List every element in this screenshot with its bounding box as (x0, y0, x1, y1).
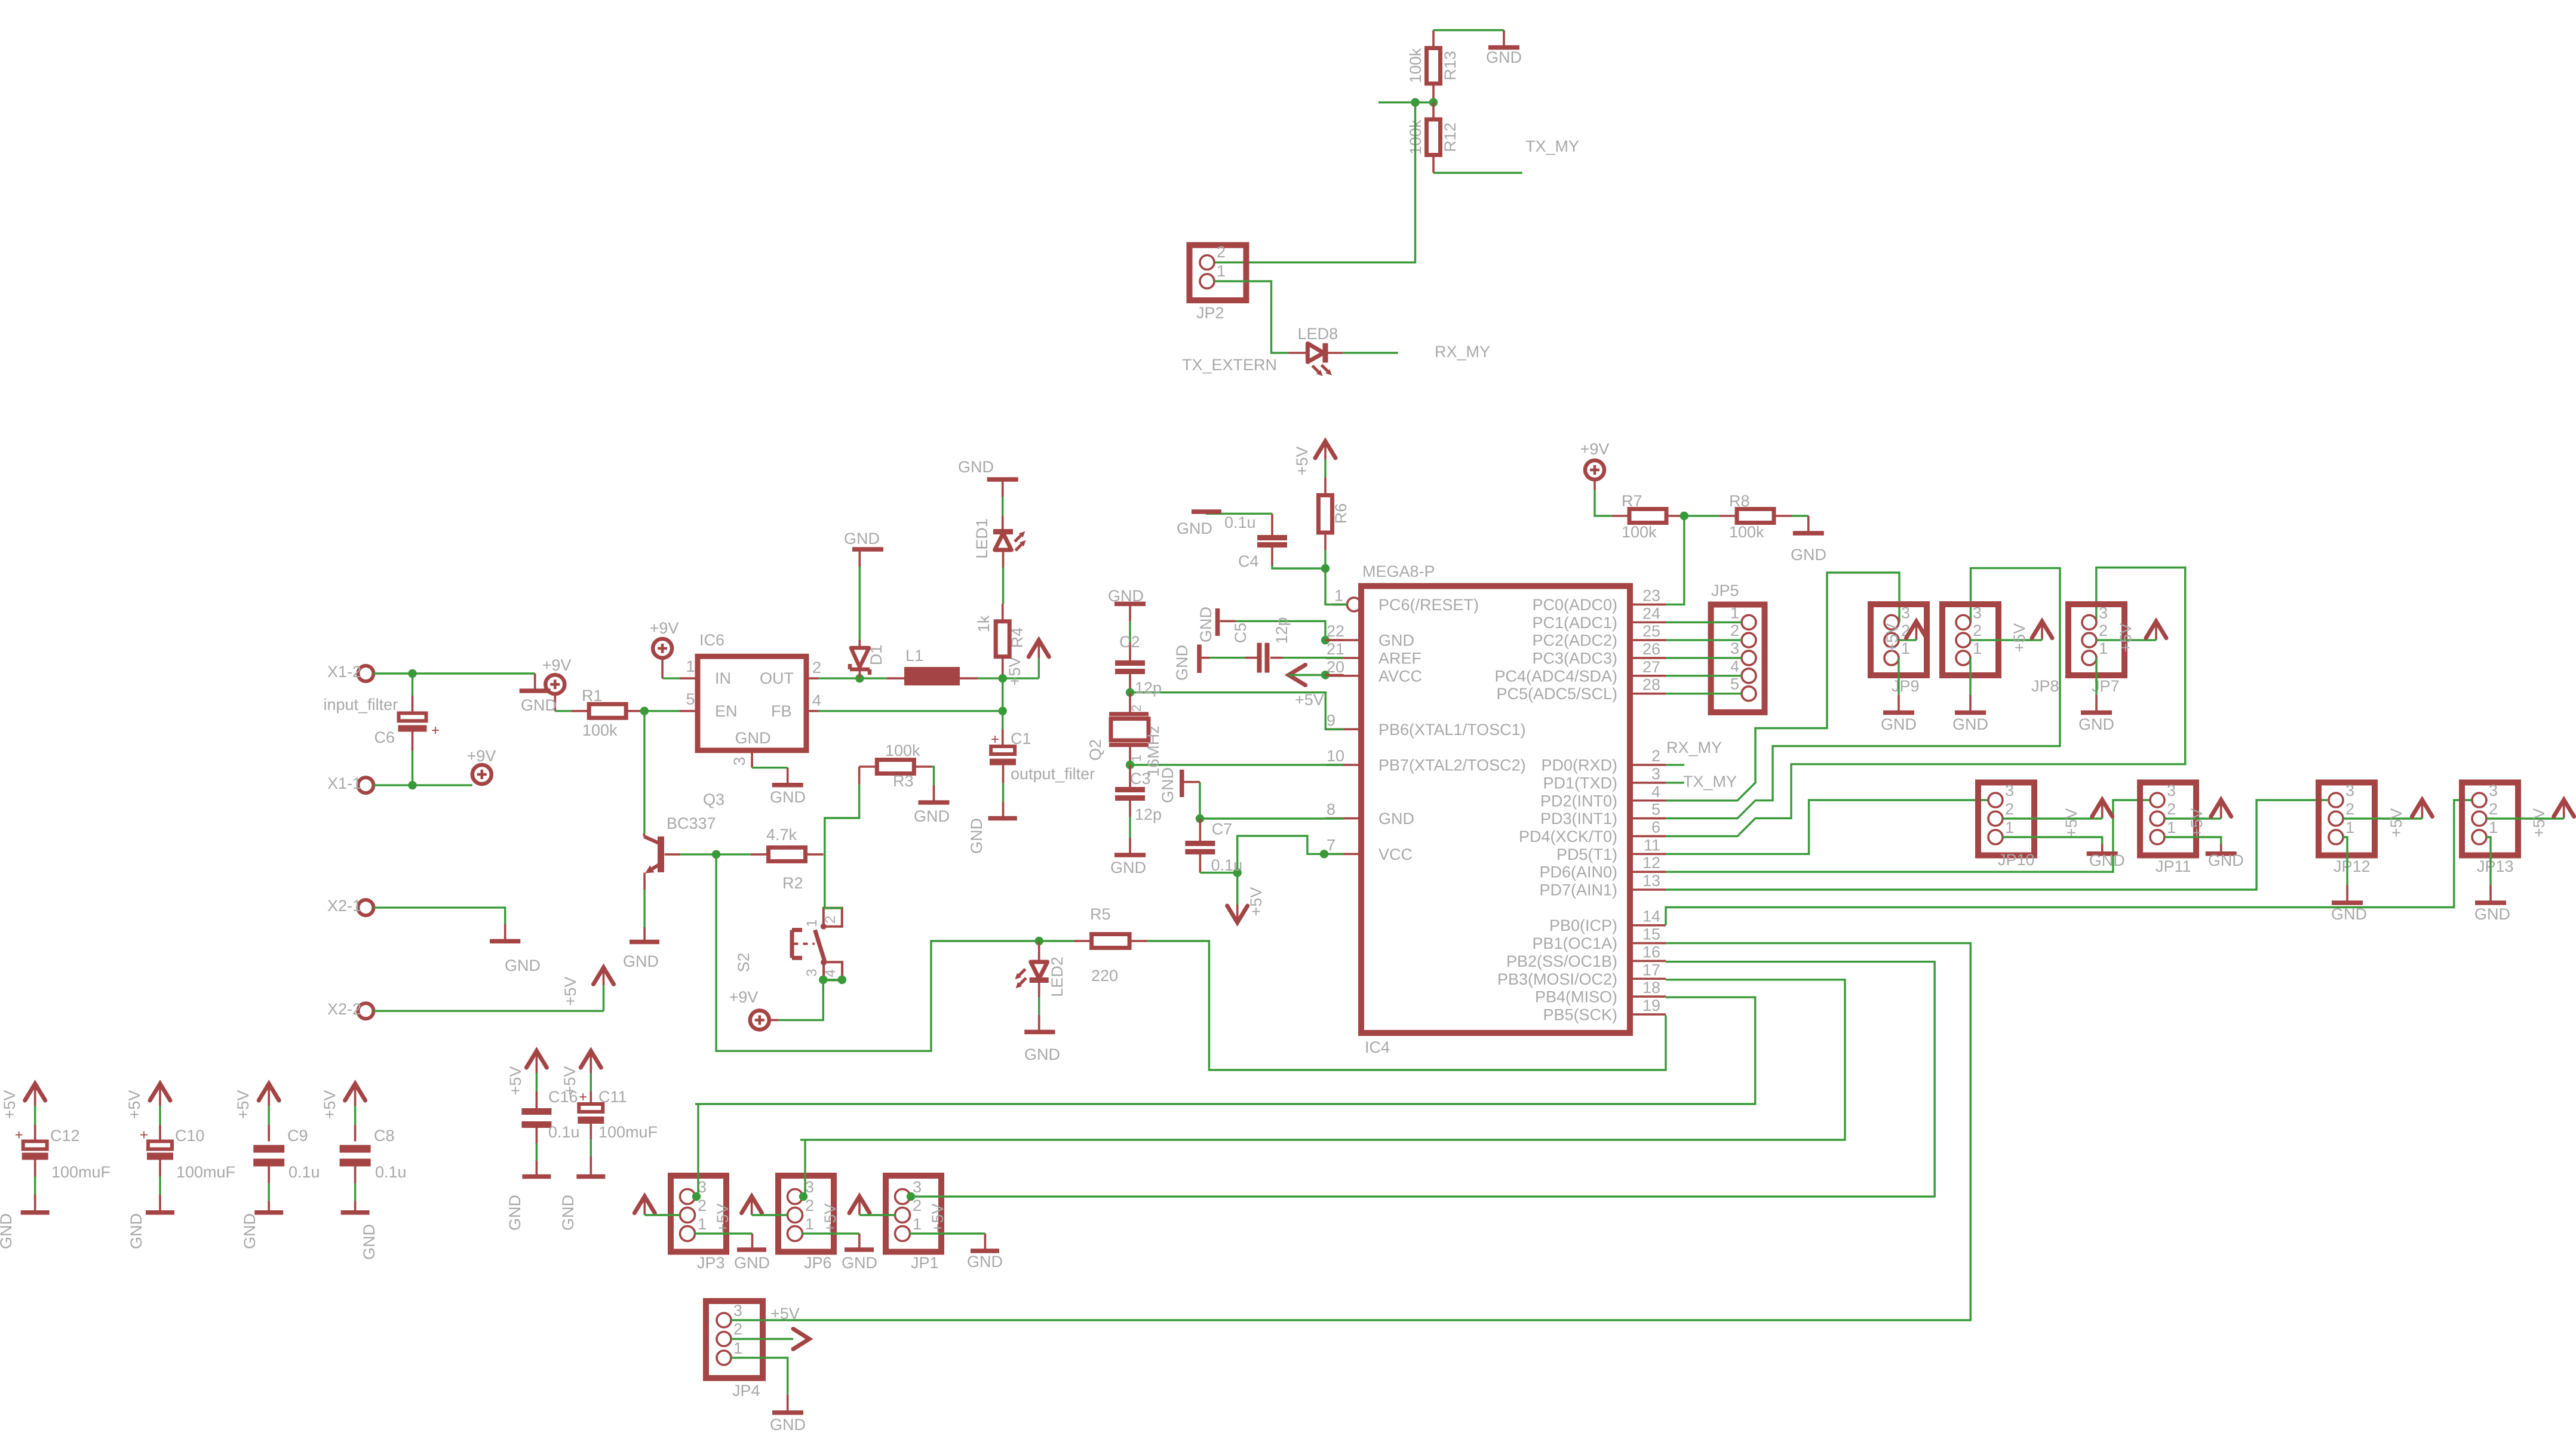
svg-text:3: 3 (733, 1302, 742, 1320)
svg-text:2: 2 (1129, 705, 1144, 712)
svg-text:PB4(MISO): PB4(MISO) (1535, 988, 1617, 1006)
wire JP1 pin2 (859, 1214, 895, 1216)
svg-text:100k: 100k (1622, 523, 1657, 541)
svg-text:+: + (991, 731, 999, 748)
svg-text:PC1(ADC1): PC1(ADC1) (1532, 614, 1617, 632)
svg-text:X2-2: X2-2 (327, 1000, 361, 1018)
ic pin 22 GND (1326, 622, 1415, 650)
wire gnd to pin 22 (1236, 621, 1325, 640)
wire FB to R3 node (818, 710, 1003, 712)
supply +5V at JP13 (2530, 800, 2574, 838)
svg-text:8: 8 (1327, 801, 1335, 819)
svg-text:GND: GND (914, 807, 950, 825)
svg-text:+: + (15, 1127, 23, 1143)
supply +5V at JP8 (2010, 622, 2052, 653)
ground GND at JP4 (770, 1395, 806, 1433)
ic pin 1 PC6/RESET (1332, 586, 1479, 614)
svg-text:1: 1 (1973, 639, 1982, 657)
wire JP4 pin1 (731, 1358, 788, 1395)
ground GND at JP1 (967, 1234, 1003, 1271)
svg-text:GND: GND (1110, 859, 1146, 877)
svg-text:1: 1 (1730, 604, 1739, 622)
svg-text:3: 3 (913, 1178, 922, 1196)
svg-text:+9V: +9V (467, 747, 496, 765)
wire gnd to pin 8 (1200, 817, 1344, 819)
svg-text:2: 2 (2167, 800, 2176, 818)
svg-text:2: 2 (1973, 622, 1982, 639)
svg-text:LED2: LED2 (1048, 957, 1066, 997)
svg-text:22: 22 (1327, 622, 1344, 640)
junction S2 pad4 (838, 976, 846, 984)
svg-text:12p: 12p (1135, 679, 1162, 697)
svg-text:GND: GND (1108, 587, 1144, 605)
svg-text:MEGA8-P: MEGA8-P (1362, 562, 1435, 580)
ground GND at JP6 (842, 1234, 877, 1272)
ground GND right of R3 (914, 785, 950, 825)
wire Q3 base net (680, 853, 751, 855)
svg-text:LED8: LED8 (1298, 325, 1338, 343)
ground GND below LED2 (1024, 1015, 1060, 1063)
svg-text:GND: GND (0, 1213, 15, 1249)
svg-text:AVCC: AVCC (1378, 667, 1422, 685)
svg-text:GND: GND (958, 458, 994, 476)
svg-text:GND: GND (360, 1224, 378, 1260)
svg-text:JP12: JP12 (2334, 857, 2371, 875)
svg-text:2: 2 (733, 1320, 742, 1338)
ground GND above LED1 (958, 458, 1018, 497)
wire +9V to R1 (555, 710, 571, 712)
svg-text:FB: FB (771, 702, 792, 720)
ground GND near X1-2 (520, 674, 557, 714)
svg-text:100muF: 100muF (51, 1163, 110, 1181)
label IC4 (1365, 1038, 1390, 1056)
inductor L1 (886, 647, 978, 685)
svg-text:4: 4 (812, 691, 821, 709)
supply +5V at X2-2 (561, 967, 614, 1011)
svg-text:2: 2 (1730, 622, 1739, 639)
wire C3 to gnd (1129, 817, 1131, 838)
svg-text:1: 1 (698, 1215, 707, 1233)
wire LED1 to R4 (1002, 568, 1004, 604)
wire C7 to +5V junction (1200, 872, 1237, 874)
wire JP3 pin3 to pin 18 (695, 997, 1755, 1104)
svg-text:0.1u: 0.1u (1211, 856, 1243, 874)
ic IC6 pin names (715, 669, 794, 747)
wire S2 bottom link (823, 979, 842, 981)
svg-text:output_filter: output_filter (1011, 765, 1095, 783)
svg-text:+5V: +5V (1, 1090, 19, 1120)
junction LED2 node (1035, 937, 1043, 945)
ground GND below C1 (968, 818, 1017, 854)
svg-text:JP6: JP6 (804, 1254, 832, 1272)
ic pin 16 PB2(SS/OC1B) (1506, 943, 1666, 970)
resistor R7 (1611, 492, 1684, 541)
ic pin 9 PB6(XTAL1/TOSC1) (1326, 711, 1526, 739)
resistor R4 (975, 604, 1026, 678)
svg-text:23: 23 (1642, 586, 1660, 604)
capacitor C7 (1185, 819, 1242, 874)
svg-text:R13: R13 (1441, 51, 1459, 81)
svg-text:PB6(XTAL1/TOSC1): PB6(XTAL1/TOSC1) (1378, 721, 1526, 739)
svg-text:13: 13 (1642, 872, 1660, 890)
svg-text:PC2(ADC2): PC2(ADC2) (1532, 632, 1617, 650)
ic pin 14 PB0(ICP) (1549, 908, 1666, 935)
label +5V at JP4 (770, 1305, 800, 1323)
svg-text:25: 25 (1642, 622, 1660, 640)
wire junction to pin 1 (1325, 568, 1347, 604)
svg-text:9: 9 (1327, 711, 1335, 729)
svg-text:1: 1 (1217, 262, 1226, 280)
capacitor C5 (1209, 617, 1291, 672)
svg-text:R6: R6 (1332, 503, 1350, 524)
wire R1 to EN (644, 710, 680, 712)
wire RX_MY stub (1666, 764, 1684, 765)
wire EN node to Q3 collector (643, 711, 645, 834)
svg-text:GND: GND (1197, 607, 1215, 642)
svg-text:PD4(XCK/T0): PD4(XCK/T0) (1519, 828, 1617, 845)
wire C1 to gnd (1002, 783, 1004, 802)
wire JP11 pin1 (2164, 837, 2221, 844)
junction output node (999, 674, 1007, 682)
wire pin 5 to JP8 pin3 (1666, 568, 2060, 818)
supply +5V at AVCC (1289, 665, 1324, 709)
svg-text:TX_EXTERN: TX_EXTERN (1182, 356, 1277, 374)
svg-text:100muF: 100muF (598, 1123, 658, 1141)
supply +9V at R1 (542, 656, 572, 711)
svg-text:JP9: JP9 (1892, 677, 1920, 695)
wire Q3 emitter (643, 890, 645, 927)
ic pin 17 PB3(MOSI/OC2) (1497, 961, 1666, 988)
svg-text:3: 3 (2489, 782, 2498, 799)
svg-text:JP8: JP8 (2031, 677, 2059, 695)
ground GND at JP3 (734, 1234, 770, 1272)
wire X1-2 net (373, 672, 535, 674)
svg-text:+5V: +5V (2062, 808, 2080, 838)
wire MCU to JP5 pin 1 (1666, 622, 1742, 623)
supply +5V down arrow (1227, 873, 1265, 922)
wire gnd drop to pin8 node (1199, 782, 1201, 819)
wire R8 to ground (1792, 515, 1809, 516)
capacitor C3 (1115, 765, 1162, 823)
junction pin8-C7 (1196, 814, 1204, 823)
svg-text:GND: GND (1173, 645, 1191, 681)
svg-text:PB5(SCK): PB5(SCK) (1543, 1005, 1617, 1023)
junction XTAL2 (1126, 761, 1134, 769)
ic pin 21 AREF (1326, 640, 1422, 668)
svg-text:+: + (140, 1127, 148, 1143)
svg-text:28: 28 (1642, 676, 1660, 694)
svg-text:6: 6 (1651, 818, 1660, 836)
ic pin 13 PD7(AIN1) (1539, 872, 1666, 899)
svg-text:3: 3 (2005, 782, 2014, 799)
svg-text:C10: C10 (175, 1127, 205, 1145)
svg-text:2: 2 (2099, 622, 2108, 639)
wire pin20 red tail (1325, 674, 1344, 676)
svg-text:21: 21 (1327, 640, 1344, 658)
svg-text:14: 14 (1642, 908, 1660, 925)
svg-text:JP1: JP1 (911, 1254, 939, 1272)
junction FB-C1 (999, 707, 1007, 715)
svg-text:3: 3 (730, 757, 748, 765)
wire net RX_MY from LED8 (1343, 352, 1398, 353)
supply +5V at JP1 (849, 1197, 947, 1233)
wire LED1 gnd tail (1002, 497, 1003, 516)
svg-text:GND: GND (1177, 519, 1212, 537)
svg-text:+9V: +9V (542, 656, 572, 674)
ground GND at JP9 (1881, 695, 1917, 733)
svg-text:X2-1: X2-1 (327, 897, 361, 915)
svg-text:100muF: 100muF (176, 1163, 235, 1181)
ic IC6 pin 1 (680, 657, 698, 678)
wire node to FB node (1002, 678, 1003, 711)
svg-text:S2: S2 (735, 952, 753, 972)
svg-text:C7: C7 (1212, 820, 1233, 838)
ic pin 7 VCC (1326, 836, 1413, 863)
svg-text:PB0(ICP): PB0(ICP) (1549, 917, 1617, 934)
svg-text:GND: GND (2078, 715, 2114, 733)
svg-text:1: 1 (686, 657, 695, 675)
svg-text:GND: GND (1024, 1045, 1060, 1063)
wire X2-1 net (373, 908, 505, 924)
svg-text:GND: GND (521, 696, 557, 714)
svg-text:+5V: +5V (2530, 808, 2548, 838)
ic pin 5 PD3(INT1) (1540, 801, 1666, 828)
svg-text:+5V: +5V (506, 1066, 524, 1096)
svg-text:GND: GND (127, 1213, 145, 1249)
wire R2 to S2 and R3 (825, 785, 859, 908)
svg-text:3: 3 (805, 1178, 814, 1196)
ic pin 4 PD2(INT0) (1540, 783, 1666, 810)
svg-text:2: 2 (1651, 747, 1660, 765)
svg-text:GND: GND (968, 818, 985, 854)
svg-text:+5V: +5V (929, 1204, 947, 1233)
svg-text:11: 11 (1644, 836, 1660, 854)
svg-text:12p: 12p (1273, 617, 1291, 644)
ic pin 19 PB5(SCK) (1543, 997, 1666, 1024)
wire JP13 pin1 (2486, 837, 2491, 885)
wire JP10 pin1 (2003, 837, 2102, 844)
wire JP1 pin3 to pin 16 (911, 962, 1935, 1197)
svg-text:PB3(MOSI/OC2): PB3(MOSI/OC2) (1497, 970, 1617, 988)
svg-text:5: 5 (686, 690, 695, 708)
svg-text:R7: R7 (1622, 492, 1642, 510)
switch S2 (735, 908, 842, 980)
svg-text:0.1u: 0.1u (1224, 513, 1256, 531)
resistor R13 (1407, 30, 1459, 103)
svg-text:R2: R2 (782, 874, 803, 892)
wire JP4 pin3 to pin 15 (731, 943, 1970, 1320)
ground GND at JP13 (2474, 885, 2510, 923)
svg-text:GND: GND (241, 1213, 259, 1249)
junction XTAL1 (1126, 688, 1134, 697)
connector JP5 (1711, 582, 1765, 712)
label net TX_MY top (1525, 137, 1579, 155)
capacitor C10 (125, 1084, 235, 1249)
wire L1 to node (978, 677, 1003, 679)
ground GND near R8 (1791, 516, 1826, 564)
svg-text:100k: 100k (1729, 523, 1764, 541)
wire junction row (1378, 102, 1433, 103)
wire S2 to +9V (778, 980, 823, 1020)
svg-text:+5V: +5V (321, 1090, 339, 1120)
svg-text:12p: 12p (1135, 805, 1162, 823)
ic pin 26 PC3(ADC3) (1532, 640, 1666, 668)
svg-text:1: 1 (805, 1215, 814, 1233)
svg-text:PB1(OC1A): PB1(OC1A) (1532, 934, 1617, 952)
svg-text:JP13: JP13 (2477, 857, 2514, 875)
capacitor C4 (1224, 513, 1287, 570)
svg-text:R4: R4 (1008, 628, 1026, 648)
ground GND below Q3 (623, 942, 659, 971)
wire R7-R8 (1684, 515, 1719, 516)
wire JP9 pin2 (1899, 639, 1917, 641)
svg-text:1: 1 (1334, 586, 1343, 604)
supply +5V at JP9 (1883, 622, 1927, 653)
svg-text:4: 4 (1730, 657, 1739, 675)
svg-text:R12: R12 (1441, 122, 1459, 152)
pad X1-2 (327, 663, 373, 681)
svg-text:GND: GND (967, 1253, 1003, 1271)
wire JP6 pin2 (752, 1214, 788, 1216)
junction node R12 top (1429, 98, 1438, 106)
wire JP11 pin2 (2164, 817, 2221, 819)
diode D1 zener (850, 567, 885, 678)
ground GND near R13 (1486, 30, 1522, 67)
svg-text:5: 5 (1651, 801, 1660, 819)
ic pin 18 PB4(MISO) (1535, 979, 1666, 1006)
ground GND above D1 (844, 530, 883, 567)
svg-text:Q3: Q3 (703, 791, 724, 808)
wire JP7 pin1 (2095, 658, 2097, 695)
pad X1-1 (327, 774, 373, 793)
svg-text:24: 24 (1642, 604, 1660, 622)
wire MCU to JP5 pin 3 (1666, 657, 1742, 659)
svg-text:TX_MY: TX_MY (1683, 773, 1737, 791)
svg-text:GND: GND (1378, 810, 1414, 828)
ic pin 8 GND (1326, 801, 1415, 828)
svg-text:+5V: +5V (1293, 447, 1311, 476)
svg-text:1: 1 (2005, 819, 2014, 837)
led LED8 (1289, 325, 1343, 376)
svg-text:C6: C6 (374, 728, 395, 746)
junction pin22 end (1321, 636, 1330, 644)
svg-text:4.7k: 4.7k (766, 826, 797, 844)
svg-text:GND: GND (1486, 48, 1522, 66)
label MEGA8-P (1362, 562, 1435, 580)
svg-text:C8: C8 (374, 1127, 395, 1145)
ic pin 12 PD6(AIN0) (1539, 854, 1666, 881)
junction C7-+5V (1233, 868, 1242, 877)
svg-text:C12: C12 (50, 1127, 80, 1145)
svg-text:GND: GND (506, 1195, 524, 1231)
wire JP2 pin2 to divider (1214, 103, 1416, 263)
wire JP6 pin3 to pin 17 (800, 980, 1845, 1140)
junction JP3 pin3 (692, 1192, 701, 1201)
connector JP2 (1190, 243, 1246, 322)
svg-text:PC0(ADC0): PC0(ADC0) (1532, 596, 1617, 614)
label IC6 (699, 631, 724, 649)
svg-text:C4: C4 (1238, 552, 1259, 570)
svg-text:17: 17 (1642, 961, 1660, 979)
svg-text:1: 1 (2099, 639, 2108, 657)
junction EN-R1-Q3 (640, 707, 649, 715)
connector JP3 (671, 1176, 726, 1272)
wire JP1 pin1 (910, 1232, 985, 1234)
svg-text:1: 1 (913, 1215, 922, 1233)
svg-text:2: 2 (2489, 800, 2498, 818)
svg-text:1: 1 (2167, 819, 2176, 837)
ic pin 3 PD1(TXD) (1543, 765, 1666, 792)
wire XTAL2 to pin 10 (1130, 764, 1344, 765)
wire JP7 pin2 (2096, 639, 2156, 641)
wire JP12 pin2 (2343, 817, 2422, 819)
svg-text:+9V: +9V (1580, 440, 1610, 458)
svg-text:IN: IN (715, 669, 731, 687)
wire OUT from IC6 (818, 677, 859, 679)
svg-text:GND: GND (735, 729, 771, 747)
wire X2-2 net (373, 1010, 603, 1011)
svg-text:1: 1 (2489, 819, 2498, 837)
svg-text:JP2: JP2 (1196, 304, 1224, 322)
capacitor C11 (559, 1051, 658, 1231)
ic IC4 MEGA8-P box (1361, 586, 1630, 1034)
svg-text:PC4(ADC4/SDA): PC4(ADC4/SDA) (1494, 667, 1617, 685)
svg-text:2: 2 (822, 915, 839, 923)
wire MCU to JP5 pin 4 (1666, 675, 1742, 676)
junction X1-2 C6 (408, 669, 416, 678)
wire TX_MY stub (1666, 782, 1684, 783)
ground GND above C2 (1108, 587, 1146, 621)
svg-text:+5V: +5V (1006, 657, 1024, 686)
label net RX_MY top (1435, 343, 1490, 361)
svg-text:+5V: +5V (234, 1090, 252, 1120)
ground GND at JP7 (2078, 695, 2114, 733)
label input_filter (324, 696, 398, 714)
wire XTAL1 to pin 9 (1130, 693, 1344, 730)
wire net N$13 top (1433, 29, 1504, 31)
ic pin 2 PD0(RXD) (1541, 747, 1666, 774)
svg-text:input_filter: input_filter (324, 696, 398, 714)
supply +5V above R6 (1293, 441, 1335, 475)
svg-text:JP4: JP4 (732, 1382, 760, 1400)
svg-text:PD6(AIN0): PD6(AIN0) (1539, 863, 1617, 881)
svg-text:12: 12 (1642, 854, 1660, 872)
svg-text:C1: C1 (1011, 730, 1031, 748)
ic pin 24 PC1(ADC1) (1532, 604, 1666, 632)
svg-text:3: 3 (2167, 782, 2176, 799)
label net TX_EXTERN (1182, 356, 1277, 374)
svg-text:R5: R5 (1090, 905, 1111, 923)
transistor Q3 BC337 (644, 791, 724, 890)
svg-text:GND: GND (770, 1416, 806, 1433)
label RX_MY (1666, 739, 1722, 757)
supply +5V at JP12 (2387, 800, 2432, 838)
ground GND below C3 (1110, 838, 1146, 877)
wire D1 to L1 (859, 677, 886, 679)
svg-text:TX_MY: TX_MY (1525, 137, 1579, 155)
ground GND left of C5 (1173, 645, 1209, 681)
ground GND for pin22 (1197, 607, 1236, 642)
svg-text:GND: GND (734, 1254, 770, 1272)
supply +5V at output (1006, 640, 1049, 685)
junction node R7-R8 (1680, 512, 1688, 520)
svg-text:+5V: +5V (1883, 623, 1901, 653)
supply +9V near R7 (1580, 440, 1610, 490)
svg-text:0.1u: 0.1u (288, 1163, 320, 1181)
connector JP10 (1978, 782, 2035, 869)
svg-text:R8: R8 (1729, 492, 1750, 510)
svg-text:GND: GND (623, 952, 659, 970)
